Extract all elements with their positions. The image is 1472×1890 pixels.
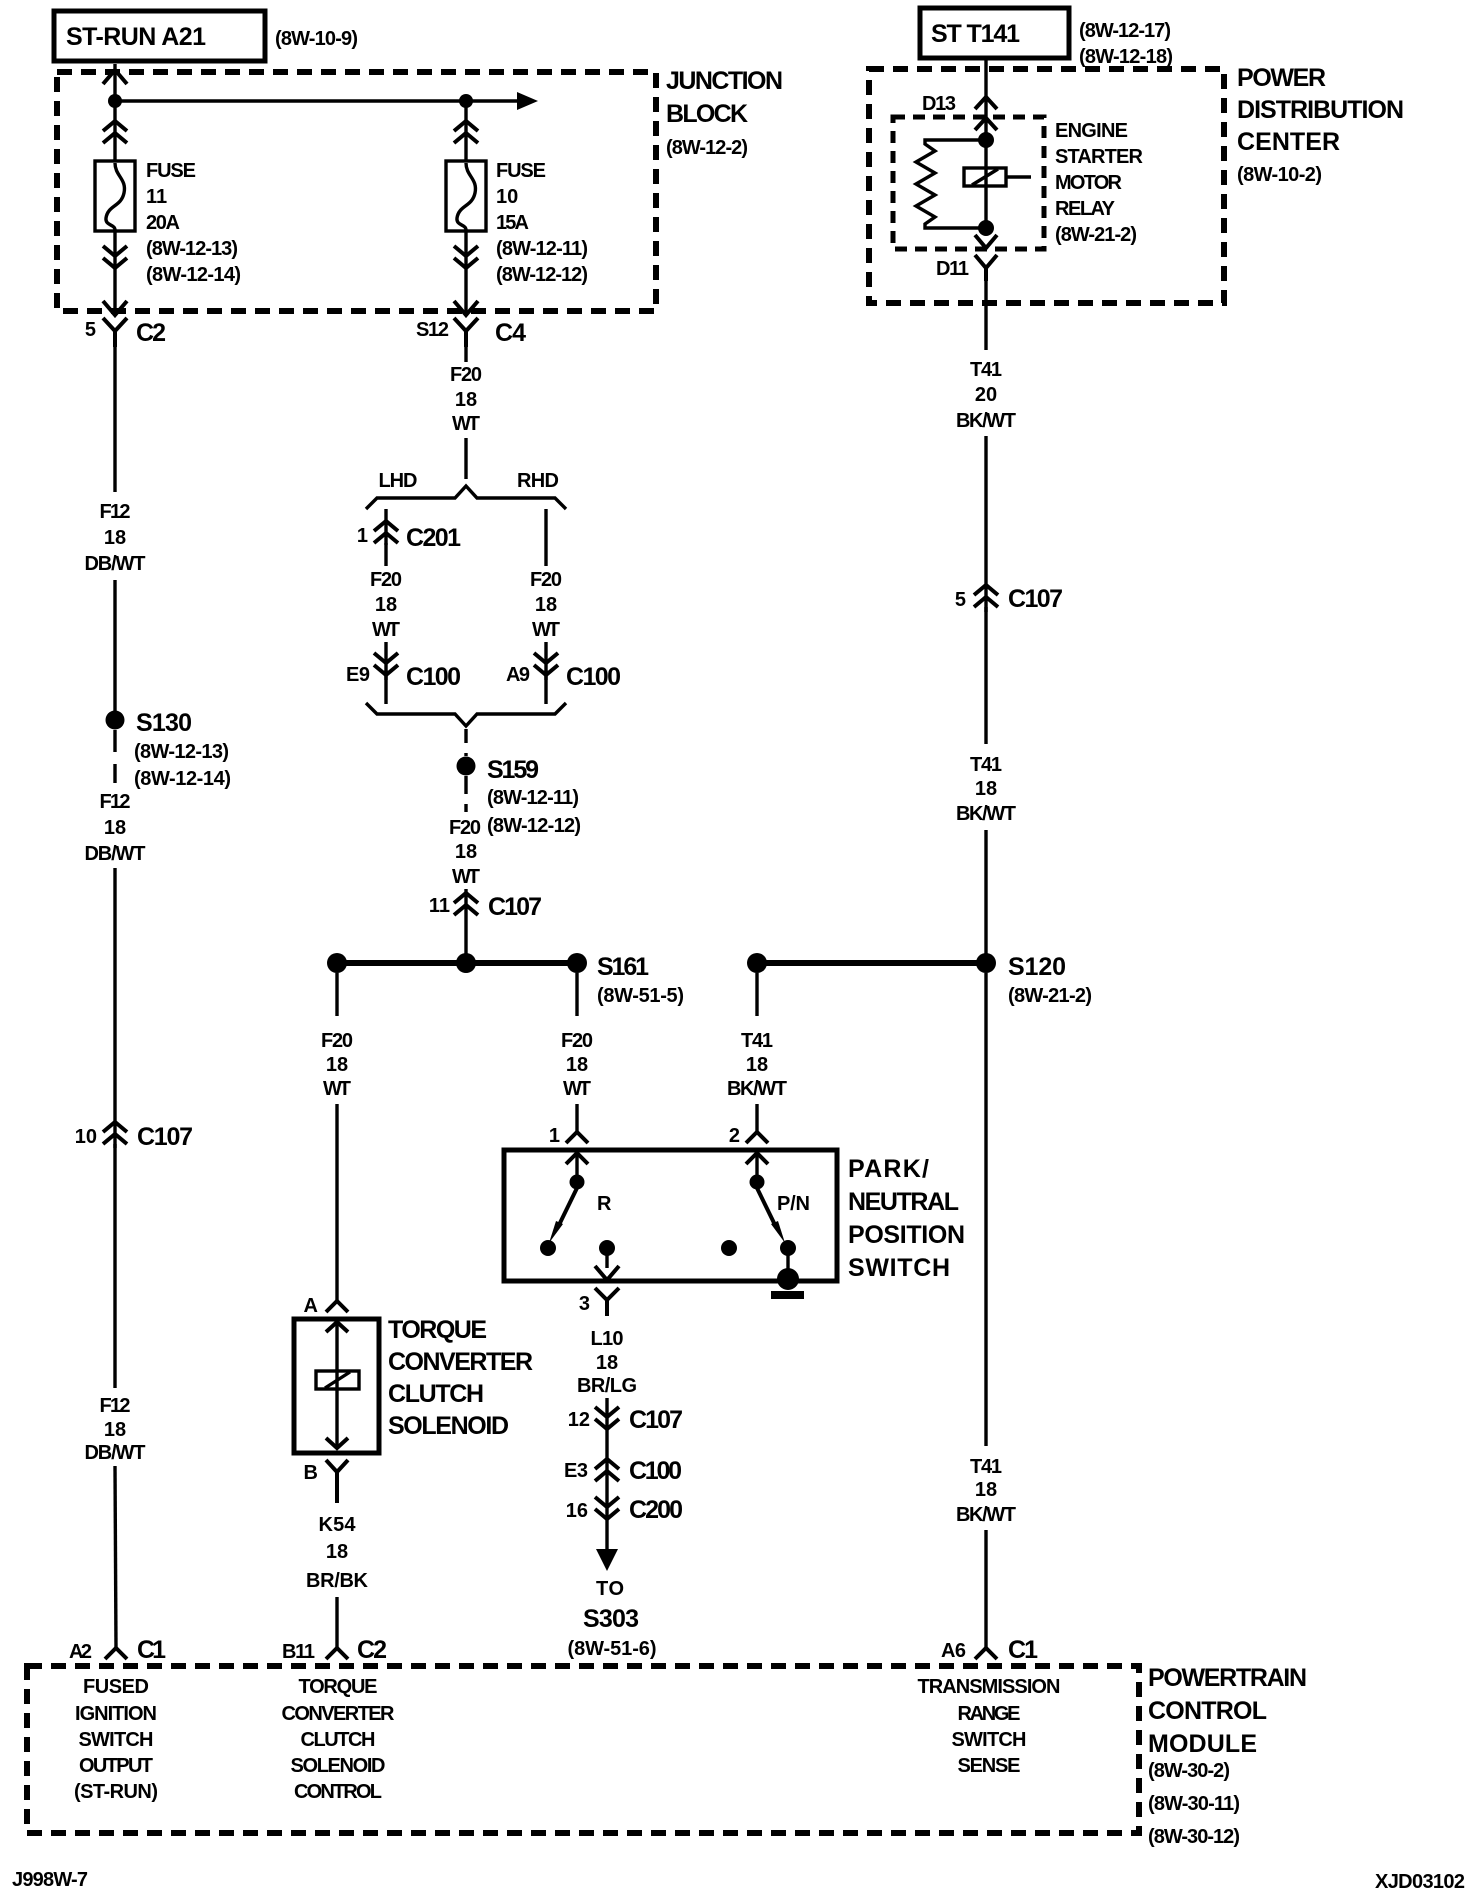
svg-text:BLOCK: BLOCK xyxy=(666,100,748,128)
svg-text:A: A xyxy=(304,1295,318,1317)
svg-text:POWER: POWER xyxy=(1237,64,1326,92)
wire T41 label to PCM pin A6 xyxy=(984,1530,987,1648)
svg-text:(8W-12-13): (8W-12-13) xyxy=(134,741,229,763)
border crossing arrow out of junction block at C2 xyxy=(103,301,127,315)
svg-text:C201: C201 xyxy=(406,524,461,552)
fuse 10 xyxy=(446,161,486,231)
wire S161 bus to F20 label x337 xyxy=(335,973,338,1016)
wire C107 to F12 label xyxy=(113,1144,116,1388)
svg-text:CONTROL: CONTROL xyxy=(1148,1697,1267,1725)
svg-text:F20: F20 xyxy=(449,817,481,839)
svg-text:FUSE: FUSE xyxy=(496,160,546,182)
svg-text:CLUTCH: CLUTCH xyxy=(301,1729,376,1751)
border crossing arrow into PNP at pin 2 xyxy=(746,1153,768,1164)
wire stub below S130 xyxy=(113,730,116,783)
svg-text:MODULE: MODULE xyxy=(1148,1730,1257,1758)
node ST T141 feed box xyxy=(920,8,1069,58)
svg-text:R: R xyxy=(597,1193,612,1215)
svg-text:(8W-12-18): (8W-12-18) xyxy=(1079,46,1173,68)
svg-text:S159: S159 xyxy=(487,756,539,784)
svg-text:DB/WT: DB/WT xyxy=(85,553,146,575)
pin D11 connector xyxy=(936,255,997,281)
wire TCC internal xyxy=(335,1322,338,1449)
wire label F12 18 DB/WT third xyxy=(85,1395,146,1464)
svg-text:E9: E9 xyxy=(346,664,370,686)
ground xyxy=(771,1291,804,1299)
svg-text:15A: 15A xyxy=(496,212,529,234)
svg-text:(8W-12-12): (8W-12-12) xyxy=(487,815,581,837)
svg-text:C107: C107 xyxy=(1008,585,1063,613)
wire K54 label to PCM pin B11 xyxy=(335,1597,338,1648)
svg-text:E3: E3 xyxy=(564,1460,588,1482)
svg-text:1: 1 xyxy=(549,1125,560,1147)
splice S120 xyxy=(976,953,1092,1007)
svg-text:(8W-12-2): (8W-12-2) xyxy=(666,137,748,159)
wire stub brace to S159 xyxy=(464,729,467,756)
engine starter motor relay dashed enclosure xyxy=(893,117,1044,249)
connector C2 terminal 5 xyxy=(85,318,166,347)
fuse 11 xyxy=(95,161,135,231)
svg-text:ENGINE: ENGINE xyxy=(1055,120,1128,142)
wire label F20 18 WT at S159 xyxy=(449,817,481,888)
switch R common contact xyxy=(570,1175,585,1190)
switch P/N common contact xyxy=(750,1175,765,1190)
svg-text:BK/WT: BK/WT xyxy=(956,803,1016,825)
svg-text:C100: C100 xyxy=(566,663,621,691)
svg-text:18: 18 xyxy=(746,1054,768,1076)
wire stub below S159 xyxy=(464,776,467,812)
svg-text:(8W-12-13): (8W-12-13) xyxy=(146,238,238,260)
in-line connector chevrons below fuse 11 xyxy=(103,246,127,268)
wire label F12 18 DB/WT second xyxy=(85,791,146,865)
wire F20 label to LHD/RHD brace xyxy=(464,438,467,479)
in-line connector chevrons below fuse 10 xyxy=(454,246,478,268)
svg-text:(8W-30-11): (8W-30-11) xyxy=(1148,1793,1240,1815)
svg-text:11: 11 xyxy=(146,186,167,208)
svg-text:RELAY: RELAY xyxy=(1055,198,1116,220)
wire ST T141 into relay xyxy=(984,60,987,140)
svg-text:5: 5 xyxy=(85,319,96,341)
svg-text:F12: F12 xyxy=(100,501,131,523)
svg-text:C2: C2 xyxy=(357,1636,387,1664)
svg-text:18: 18 xyxy=(326,1541,348,1563)
pin A2 function label xyxy=(74,1676,158,1803)
svg-text:ST T141: ST T141 xyxy=(931,20,1020,48)
wire C2 to F12 label xyxy=(113,347,116,492)
svg-text:C1: C1 xyxy=(137,1636,166,1664)
svg-text:16: 16 xyxy=(566,1500,588,1522)
bus wire S120 right segment xyxy=(757,960,986,966)
wire label F20 18 WT xyxy=(561,1030,593,1100)
svg-text:11: 11 xyxy=(429,895,450,917)
svg-text:L10: L10 xyxy=(591,1328,624,1350)
svg-text:F12: F12 xyxy=(100,1395,131,1417)
wire F20 label to PNP pin 1 xyxy=(575,1104,578,1132)
svg-text:18: 18 xyxy=(975,1479,997,1501)
svg-text:DISTRIBUTION: DISTRIBUTION xyxy=(1237,96,1404,124)
svg-text:S161: S161 xyxy=(597,953,649,981)
svg-text:F20: F20 xyxy=(321,1030,353,1052)
svg-text:MOTOR: MOTOR xyxy=(1055,172,1123,194)
junction block dashed enclosure xyxy=(57,72,656,311)
junction block title xyxy=(666,67,783,159)
wire label T41 18 BK/WT xyxy=(727,1030,787,1100)
wire S161 bus to F20 label x577 xyxy=(575,973,578,1016)
splice S161 xyxy=(567,953,684,1007)
relay resistor xyxy=(916,140,986,228)
wire fuse 10 drop xyxy=(464,101,467,162)
in-line connector chevrons above fuse 11 xyxy=(103,121,127,143)
svg-text:C2: C2 xyxy=(136,319,166,347)
engine starter motor relay label xyxy=(1055,120,1144,246)
junction node TCC branch xyxy=(327,953,347,973)
wire C100 to brace LHD xyxy=(384,670,387,704)
wire F12 label to splice S130 xyxy=(113,580,116,712)
brace LHD/RHD split xyxy=(366,486,566,509)
svg-text:(8W-12-14): (8W-12-14) xyxy=(146,264,241,286)
svg-text:D11: D11 xyxy=(936,258,969,280)
svg-text:C200: C200 xyxy=(629,1496,683,1524)
wire S120 to T41 label xyxy=(984,973,987,1446)
powertrain control module dashed enclosure xyxy=(27,1666,1139,1833)
svg-text:T41: T41 xyxy=(970,359,1002,381)
switch contact unconnected xyxy=(721,1240,737,1256)
pin A6 function label xyxy=(918,1676,1061,1777)
wire C4 to F20 label xyxy=(464,347,467,362)
svg-text:(8W-10-9): (8W-10-9) xyxy=(275,28,358,50)
svg-text:WT: WT xyxy=(452,866,480,888)
wire relay to T41 label xyxy=(984,268,987,350)
border crossing arrow out of PNP at pin 3 xyxy=(595,1266,619,1280)
svg-text:FUSED: FUSED xyxy=(83,1676,149,1698)
svg-text:10: 10 xyxy=(75,1126,97,1148)
connector C100 terminal A9 xyxy=(506,653,621,691)
svg-text:T41: T41 xyxy=(741,1030,773,1052)
svg-text:XJD03102: XJD03102 xyxy=(1375,1871,1465,1890)
wire PNP pin 2 to P/N contact xyxy=(755,1153,758,1176)
svg-text:OUTPUT: OUTPUT xyxy=(79,1755,153,1777)
svg-text:18: 18 xyxy=(375,594,397,616)
wire F20 label to TCC solenoid pin A xyxy=(335,1104,338,1301)
svg-text:LHD: LHD xyxy=(379,470,418,492)
svg-text:S12: S12 xyxy=(416,319,449,341)
border crossing arrow into TCC xyxy=(326,1322,348,1332)
svg-text:S303: S303 xyxy=(583,1605,639,1633)
svg-text:POSITION: POSITION xyxy=(848,1221,965,1249)
svg-text:DB/WT: DB/WT xyxy=(85,843,146,865)
svg-text:18: 18 xyxy=(104,817,126,839)
wire LHD branch to C201 xyxy=(384,509,387,545)
arrow to S303 xyxy=(596,1549,618,1571)
wire fuse 10 to connector C4 xyxy=(464,230,467,316)
svg-text:20A: 20A xyxy=(146,212,180,234)
svg-text:D13: D13 xyxy=(922,93,956,115)
PNP pin 1 connector xyxy=(549,1125,588,1147)
border crossing arrow out of TCC xyxy=(326,1438,348,1448)
wire label T41 18 BK/WT lower xyxy=(956,1456,1016,1526)
svg-text:SWITCH: SWITCH xyxy=(848,1254,950,1282)
border crossing arrow out of junction block at C4 xyxy=(454,301,478,315)
svg-text:SOLENOID: SOLENOID xyxy=(388,1412,509,1440)
wire fuse 11 to connector C2 xyxy=(113,230,116,316)
svg-text:BK/WT: BK/WT xyxy=(956,1504,1016,1526)
reference label (8W-12-11) (8W-12-12) xyxy=(487,787,581,837)
svg-text:A9: A9 xyxy=(506,664,530,686)
border crossing arrow into relay xyxy=(975,118,997,130)
in-line connector chevrons above fuse 10 xyxy=(454,121,478,143)
svg-text:(8W-12-17): (8W-12-17) xyxy=(1079,20,1171,42)
splice S159 xyxy=(457,756,540,784)
wire T41 label to PNP pin 2 xyxy=(755,1104,758,1132)
wire label F20 18 WT xyxy=(450,364,482,435)
wire label K54 18 BR/BK xyxy=(306,1514,369,1592)
wire junction bus arrow to fuse 10 branch xyxy=(115,92,538,110)
svg-text:BR/BK: BR/BK xyxy=(306,1570,369,1592)
svg-text:C4: C4 xyxy=(495,319,526,347)
reference label (8W-12-13) (8W-12-14) xyxy=(134,741,231,790)
svg-text:B: B xyxy=(304,1462,318,1484)
svg-text:TORQUE: TORQUE xyxy=(388,1316,487,1344)
connector C107 terminal 10 xyxy=(75,1122,193,1151)
svg-text:C1: C1 xyxy=(1008,1636,1038,1664)
svg-text:18: 18 xyxy=(104,527,126,549)
brace merge to S159 xyxy=(366,703,566,726)
reference label (8W-12-17) (8W-12-18) xyxy=(1079,20,1173,68)
power distribution center title xyxy=(1237,64,1404,186)
svg-text:18: 18 xyxy=(455,841,477,863)
svg-text:18: 18 xyxy=(326,1054,348,1076)
svg-text:CENTER: CENTER xyxy=(1237,128,1340,156)
wire label T41 18 BK/WT xyxy=(956,754,1016,825)
svg-text:(8W-51-6): (8W-51-6) xyxy=(568,1638,657,1660)
svg-text:A2: A2 xyxy=(69,1641,92,1663)
connector C107 terminal 12 xyxy=(568,1406,683,1434)
wire F12 label to connector C107 xyxy=(113,868,116,1148)
wire C107 to T41 label xyxy=(984,607,987,744)
svg-text:WT: WT xyxy=(563,1078,591,1100)
svg-text:SENSE: SENSE xyxy=(958,1755,1021,1777)
svg-text:F20: F20 xyxy=(530,569,562,591)
switch R blade xyxy=(549,1188,577,1243)
pin B11 function label xyxy=(282,1676,396,1803)
PCM pin A6 connector C1 xyxy=(941,1636,1038,1664)
powertrain control module title xyxy=(1148,1664,1307,1848)
junction node PNP pin 2 branch xyxy=(747,953,767,973)
border crossing arrow into PNP at pin 1 xyxy=(566,1153,588,1164)
PNP pin 3 connector xyxy=(579,1288,619,1316)
connector C4 terminal S12 xyxy=(416,318,526,347)
bus wire S161 left segment xyxy=(337,960,577,966)
relay coil bottom node xyxy=(978,220,994,236)
PNP pin 2 connector xyxy=(729,1125,768,1147)
PCM pin A2 connector C1 xyxy=(69,1636,166,1664)
wire RHD branch xyxy=(544,509,547,566)
svg-text:TRANSMISSION: TRANSMISSION xyxy=(918,1676,1061,1698)
svg-text:(8W-21-2): (8W-21-2) xyxy=(1055,224,1137,246)
svg-text:BK/WT: BK/WT xyxy=(956,410,1016,432)
node label TO S303 (8W-51-6) xyxy=(568,1578,657,1660)
svg-text:TO: TO xyxy=(596,1578,624,1600)
park/neutral position switch box xyxy=(504,1150,837,1281)
connector C100 terminal E3 xyxy=(564,1457,682,1485)
svg-text:FUSE: FUSE xyxy=(146,160,196,182)
svg-text:STARTER: STARTER xyxy=(1055,146,1144,168)
svg-text:18: 18 xyxy=(566,1054,588,1076)
wire S120 bus to T41 label x757 xyxy=(755,973,758,1016)
wire T41 label to connector C107 xyxy=(984,436,987,612)
TCC solenoid coil xyxy=(316,1371,359,1389)
wire C201 to C100 LHD xyxy=(384,543,387,566)
svg-text:CLUTCH: CLUTCH xyxy=(388,1380,484,1408)
svg-text:10: 10 xyxy=(496,186,518,208)
svg-text:(ST-RUN): (ST-RUN) xyxy=(74,1781,158,1803)
wire C107 to C100 xyxy=(605,1398,608,1551)
svg-text:18: 18 xyxy=(104,1419,126,1441)
connector C201 terminal 1 xyxy=(357,521,461,552)
svg-text:12: 12 xyxy=(568,1409,590,1431)
svg-text:5: 5 xyxy=(955,589,966,611)
wire PNP pin 1 to R contact xyxy=(575,1153,578,1176)
svg-text:(8W-12-14): (8W-12-14) xyxy=(134,768,231,790)
svg-text:T41: T41 xyxy=(970,1456,1002,1478)
svg-text:K54: K54 xyxy=(319,1514,357,1536)
svg-text:(8W-12-11): (8W-12-11) xyxy=(496,238,588,260)
svg-text:TORQUE: TORQUE xyxy=(299,1676,378,1698)
wire C100 to brace RHD xyxy=(544,670,547,704)
svg-text:JUNCTION: JUNCTION xyxy=(666,67,783,95)
svg-text:(8W-12-12): (8W-12-12) xyxy=(496,264,588,286)
switch contact R output xyxy=(599,1240,615,1256)
svg-text:F20: F20 xyxy=(450,364,482,386)
wire ST-RUN A21 to fuse 11 xyxy=(113,64,116,162)
svg-text:RHD: RHD xyxy=(517,470,559,492)
junction node at fuse 10 tap xyxy=(459,94,473,108)
svg-text:18: 18 xyxy=(455,389,477,411)
svg-text:(8W-30-12): (8W-30-12) xyxy=(1148,1826,1240,1848)
svg-text:SWITCH: SWITCH xyxy=(952,1729,1027,1751)
wire label L10 18 BR/LG xyxy=(577,1328,637,1397)
svg-text:SWITCH: SWITCH xyxy=(79,1729,154,1751)
junction node C107 feed xyxy=(456,953,476,973)
svg-text:IGNITION: IGNITION xyxy=(75,1703,157,1725)
TCC solenoid pin A connector xyxy=(304,1295,348,1317)
svg-text:S130: S130 xyxy=(136,709,192,737)
TCC solenoid pin B connector xyxy=(304,1460,348,1503)
svg-text:NEUTRAL: NEUTRAL xyxy=(848,1188,959,1216)
svg-text:18: 18 xyxy=(535,594,557,616)
svg-text:WT: WT xyxy=(452,413,480,435)
svg-text:A6: A6 xyxy=(941,1640,966,1662)
pin D13 connector xyxy=(922,93,997,115)
border crossing arrow into junction block xyxy=(103,70,127,84)
svg-text:1: 1 xyxy=(357,525,368,547)
switch contact R lower left xyxy=(540,1240,556,1256)
svg-text:POWERTRAIN: POWERTRAIN xyxy=(1148,1664,1307,1692)
wire label F20 18 WT LHD xyxy=(370,569,402,641)
torque converter clutch solenoid box xyxy=(294,1319,379,1453)
node ST-RUN A21 feed box xyxy=(54,11,265,61)
connector C200 terminal 16 xyxy=(566,1496,683,1524)
park/neutral position switch title xyxy=(848,1155,965,1282)
wire T41 label to splice S120 xyxy=(984,830,987,963)
svg-text:ST-RUN A21: ST-RUN A21 xyxy=(66,23,206,51)
svg-text:SOLENOID: SOLENOID xyxy=(291,1755,386,1777)
svg-text:C107: C107 xyxy=(137,1123,193,1151)
svg-text:B11: B11 xyxy=(282,1641,315,1663)
border crossing arrow out of relay xyxy=(975,235,997,248)
svg-text:CONTROL: CONTROL xyxy=(294,1781,382,1803)
svg-text:18: 18 xyxy=(975,778,997,800)
connector C107 terminal 11 xyxy=(429,893,542,921)
wire label F20 18 WT RHD xyxy=(530,569,562,641)
svg-text:P/N: P/N xyxy=(777,1193,810,1215)
wire C107 to splice S161 bus xyxy=(464,889,467,963)
svg-text:(8W-21-2): (8W-21-2) xyxy=(1008,985,1092,1007)
ground node on PNP case xyxy=(777,1268,799,1290)
svg-text:(8W-10-2): (8W-10-2) xyxy=(1237,164,1322,186)
junction node at fuse 11 tap xyxy=(108,94,122,108)
svg-text:F12: F12 xyxy=(100,791,131,813)
svg-text:WT: WT xyxy=(323,1078,351,1100)
fuse 10 value label xyxy=(496,160,588,286)
connector C100 terminal E9 xyxy=(346,653,461,691)
wire label F20 18 WT xyxy=(321,1030,353,1100)
svg-text:J998W-7: J998W-7 xyxy=(12,1869,88,1890)
svg-text:3: 3 xyxy=(579,1293,590,1315)
svg-text:2: 2 xyxy=(729,1125,740,1147)
svg-text:F20: F20 xyxy=(561,1030,593,1052)
svg-text:CONVERTER: CONVERTER xyxy=(282,1703,396,1725)
svg-text:T41: T41 xyxy=(970,754,1002,776)
splice S130 xyxy=(106,709,193,737)
svg-text:RANGE: RANGE xyxy=(958,1703,1021,1725)
switch contact P/N ground xyxy=(780,1240,796,1256)
svg-text:(8W-51-5): (8W-51-5) xyxy=(597,985,684,1007)
PCM pin B11 connector C2 xyxy=(282,1636,387,1664)
power distribution center dashed enclosure xyxy=(869,69,1224,303)
svg-text:S120: S120 xyxy=(1008,953,1066,981)
svg-text:C107: C107 xyxy=(629,1406,683,1434)
svg-text:C100: C100 xyxy=(406,663,461,691)
relay coil top node xyxy=(978,132,994,148)
wire P/N contact to ground xyxy=(786,1252,789,1272)
wire label T41 20 BK/WT xyxy=(956,359,1016,432)
wire F12 label to PCM pin A2 xyxy=(115,1466,116,1648)
svg-text:C107: C107 xyxy=(488,893,542,921)
wire R output contact to pin 3 xyxy=(605,1252,608,1268)
svg-text:BK/WT: BK/WT xyxy=(727,1078,787,1100)
svg-text:DB/WT: DB/WT xyxy=(85,1442,146,1464)
relay coil xyxy=(964,140,1031,228)
switch P/N blade xyxy=(757,1188,785,1243)
wire label F12 18 DB/WT xyxy=(85,501,146,575)
svg-text:F20: F20 xyxy=(370,569,402,591)
connector C107 terminal 5 xyxy=(955,585,1063,613)
svg-text:18: 18 xyxy=(596,1352,618,1374)
svg-text:BR/LG: BR/LG xyxy=(577,1375,637,1397)
svg-text:CONVERTER: CONVERTER xyxy=(388,1348,533,1376)
svg-text:(8W-12-11): (8W-12-11) xyxy=(487,787,579,809)
svg-text:WT: WT xyxy=(532,619,560,641)
torque converter clutch solenoid title xyxy=(388,1316,533,1440)
svg-text:20: 20 xyxy=(975,384,997,406)
svg-text:(8W-30-2): (8W-30-2) xyxy=(1148,1760,1230,1782)
svg-text:C100: C100 xyxy=(629,1457,682,1485)
fuse 11 value label xyxy=(146,160,241,286)
svg-text:WT: WT xyxy=(372,619,400,641)
svg-text:PARK/: PARK/ xyxy=(848,1155,929,1183)
